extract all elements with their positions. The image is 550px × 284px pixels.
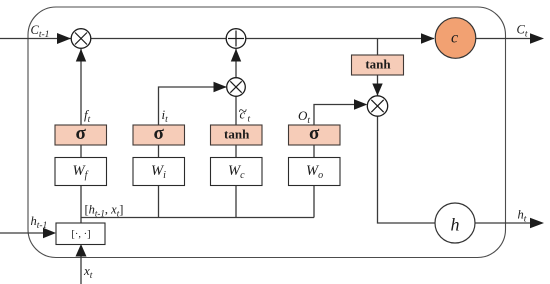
wire mult3 to h circle xyxy=(378,115,435,224)
svg-text:[·, ·]: [·, ·] xyxy=(71,229,90,240)
wire forget column xyxy=(80,49,82,125)
svg-text:tanh: tanh xyxy=(224,127,250,142)
multiply node 3 xyxy=(367,96,387,116)
arrow C-t out xyxy=(530,33,544,43)
wire C-out xyxy=(476,38,541,40)
svg-text:Ct: Ct xyxy=(517,23,528,40)
svg-text:ht-1: ht-1 xyxy=(31,214,48,231)
wire mult2 to add xyxy=(235,49,237,87)
concat box xyxy=(56,223,105,245)
cell boundary xyxy=(28,7,506,258)
sigma box input gate xyxy=(133,125,185,145)
svg-text:~: ~ xyxy=(239,103,247,120)
wire Wf to concat xyxy=(80,186,82,224)
wire Wc to bus xyxy=(235,186,237,218)
wire Wi to bus xyxy=(158,186,160,218)
multiply node 2 xyxy=(227,78,246,97)
hidden state circle h xyxy=(435,203,475,243)
weight box Wo xyxy=(289,158,341,186)
wire output gate xyxy=(314,105,366,126)
wire h-prev xyxy=(0,232,46,234)
wire C-line xyxy=(0,38,434,40)
svg-text:xt: xt xyxy=(83,263,93,281)
svg-text:c: c xyxy=(451,30,458,47)
svg-text:[ht-1, xt]: [ht-1, xt] xyxy=(85,203,124,219)
svg-text:t: t xyxy=(248,115,251,125)
wire x-in xyxy=(80,252,82,284)
cell state circle c xyxy=(435,18,476,59)
arrow into mult1 xyxy=(57,33,71,44)
arrow into c circle xyxy=(421,33,435,43)
tanh box cell output xyxy=(352,55,404,75)
svg-text:σ: σ xyxy=(309,123,320,144)
sigma box output gate xyxy=(289,125,341,145)
wire candidate column xyxy=(235,87,237,125)
svg-text:σ: σ xyxy=(154,123,165,144)
svg-text:tanh: tanh xyxy=(365,57,391,72)
wire tanh3 to Wc xyxy=(235,145,237,158)
weight box Wf xyxy=(55,158,107,186)
svg-text:σ: σ xyxy=(76,123,87,144)
wire sigma2 to Wi xyxy=(158,145,160,158)
svg-text:Ot: Ot xyxy=(298,108,310,126)
svg-text:Ct-1: Ct-1 xyxy=(31,23,50,40)
wire Wo to bus xyxy=(313,186,315,218)
arrow into concat xyxy=(43,228,56,238)
wire C to tanh box xyxy=(377,39,379,56)
wire h-out xyxy=(476,222,542,224)
tanh box candidate xyxy=(211,125,263,145)
wire sigma4 to Wo xyxy=(313,145,315,158)
add node xyxy=(226,29,246,49)
arrow into mult3 top xyxy=(372,84,382,96)
svg-text:h: h xyxy=(451,215,460,235)
wire tanh box to mult3 xyxy=(377,75,379,97)
sigma box forget gate xyxy=(55,125,107,145)
wire concat bus xyxy=(81,217,314,219)
arrow mult1 from below xyxy=(76,49,86,62)
arrow h-t out xyxy=(530,218,544,228)
svg-text:ht: ht xyxy=(518,208,527,225)
wire sigma1 to Wf xyxy=(80,145,82,158)
arrow into mult3 left xyxy=(354,99,367,109)
wire i column xyxy=(159,87,227,125)
arrow x into concat xyxy=(76,244,87,257)
multiply node 1 xyxy=(71,29,91,49)
arrow into mult2 xyxy=(214,82,227,92)
weight box Wc xyxy=(211,158,263,186)
weight box Wi xyxy=(133,158,185,186)
arrow into add from below xyxy=(231,49,241,62)
